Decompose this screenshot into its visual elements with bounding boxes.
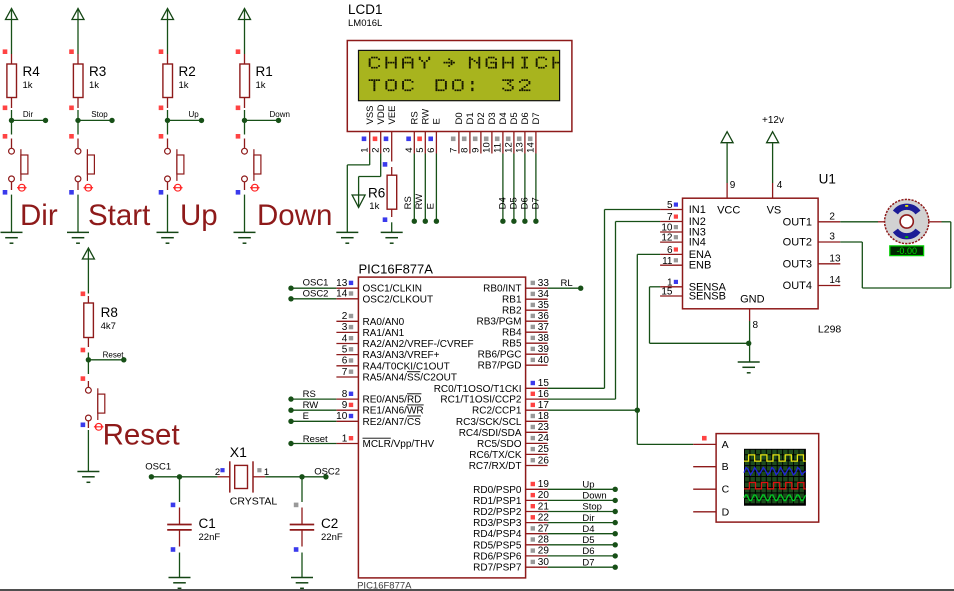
svg-text:14: 14 — [336, 289, 348, 300]
svg-text:Dir: Dir — [23, 110, 34, 119]
svg-text:40: 40 — [538, 355, 550, 366]
svg-text:9: 9 — [730, 180, 736, 191]
svg-text:RW: RW — [303, 400, 319, 411]
svg-text:E: E — [425, 203, 436, 209]
svg-text:34: 34 — [538, 289, 550, 300]
svg-text:8: 8 — [460, 148, 471, 153]
svg-text:RD4/PSP4: RD4/PSP4 — [473, 529, 522, 540]
svg-text:VS: VS — [767, 205, 782, 217]
svg-text:C: C — [722, 484, 730, 496]
svg-text:A: A — [722, 439, 729, 451]
svg-text:D4: D4 — [498, 112, 509, 124]
svg-text:D0: D0 — [454, 112, 465, 124]
svg-text:RB3/PGM: RB3/PGM — [476, 317, 521, 328]
svg-text:RE2/AN7/CS: RE2/AN7/CS — [363, 417, 422, 428]
svg-text:15: 15 — [661, 287, 673, 298]
svg-text:RC3/SCK/SCL: RC3/SCK/SCL — [456, 417, 522, 428]
svg-text:RD3/PSP3: RD3/PSP3 — [473, 518, 522, 529]
svg-text:7: 7 — [342, 367, 348, 378]
svg-text:RB0/INT: RB0/INT — [483, 284, 521, 295]
svg-text:VCC: VCC — [717, 205, 740, 217]
svg-text:RB1: RB1 — [502, 295, 522, 306]
svg-text:13: 13 — [336, 278, 348, 289]
svg-text:D5: D5 — [582, 535, 594, 546]
svg-text:C1: C1 — [199, 516, 216, 531]
svg-text:VEE: VEE — [387, 105, 398, 124]
svg-text:3: 3 — [382, 148, 393, 153]
svg-text:22: 22 — [538, 512, 550, 523]
svg-text:RD2/PSP2: RD2/PSP2 — [473, 507, 522, 518]
svg-text:4: 4 — [342, 333, 348, 344]
svg-text:22nF: 22nF — [321, 532, 343, 543]
svg-text:9: 9 — [471, 148, 482, 153]
svg-text:Reset: Reset — [103, 350, 125, 359]
svg-text:D6: D6 — [520, 112, 531, 124]
svg-text:D4: D4 — [498, 197, 509, 209]
svg-text:Reset: Reset — [103, 419, 180, 452]
svg-text:8: 8 — [753, 320, 759, 331]
svg-text:2: 2 — [371, 148, 382, 153]
svg-text:39: 39 — [538, 344, 550, 355]
svg-text:GND: GND — [740, 294, 765, 306]
svg-text:+12v: +12v — [762, 115, 784, 126]
svg-text:Down: Down — [270, 110, 290, 119]
svg-text:RA3/AN3/VREF+: RA3/AN3/VREF+ — [363, 350, 440, 361]
svg-text:OUT2: OUT2 — [783, 237, 812, 249]
svg-text:RW: RW — [421, 109, 432, 125]
svg-text:RB4: RB4 — [502, 328, 522, 339]
svg-text:OSC2: OSC2 — [303, 288, 329, 299]
svg-text:Dir: Dir — [20, 199, 58, 232]
svg-text:RS: RS — [403, 196, 414, 209]
svg-text:Reset: Reset — [303, 434, 328, 445]
svg-text:Start: Start — [88, 199, 150, 232]
svg-text:E: E — [432, 118, 443, 124]
svg-text:RA5/AN4/SS/C2OUT: RA5/AN4/SS/C2OUT — [363, 373, 457, 384]
svg-text:RA0/AN0: RA0/AN0 — [363, 317, 405, 328]
svg-text:26: 26 — [538, 455, 550, 466]
svg-text:17: 17 — [538, 400, 550, 411]
svg-text:RD5/PSP5: RD5/PSP5 — [473, 540, 522, 551]
svg-text:22nF: 22nF — [199, 532, 221, 543]
svg-text:RW: RW — [414, 194, 425, 210]
svg-text:RC4/SDI/SDA: RC4/SDI/SDA — [459, 428, 522, 439]
svg-text:RE0/AN5/RD: RE0/AN5/RD — [363, 395, 422, 406]
svg-text:6: 6 — [342, 356, 348, 367]
svg-text:20: 20 — [538, 490, 550, 501]
svg-text:D3: D3 — [487, 112, 498, 124]
svg-text:CRYSTAL: CRYSTAL — [230, 496, 278, 508]
svg-text:30: 30 — [538, 557, 550, 568]
svg-text:11: 11 — [662, 256, 673, 267]
svg-text:OUT1: OUT1 — [783, 216, 812, 228]
svg-text:R1: R1 — [256, 64, 273, 79]
svg-text:RB7/PGD: RB7/PGD — [478, 361, 522, 372]
svg-text:MCLR/Vpp/THV: MCLR/Vpp/THV — [363, 439, 435, 450]
svg-text:7: 7 — [449, 148, 460, 153]
svg-text:RC2/CCP1: RC2/CCP1 — [472, 406, 522, 417]
svg-text:6: 6 — [667, 245, 673, 256]
svg-text:OSC1/CLKIN: OSC1/CLKIN — [363, 284, 422, 295]
svg-text:3: 3 — [342, 322, 348, 333]
svg-text:5: 5 — [667, 200, 673, 211]
svg-text:X1: X1 — [230, 444, 247, 460]
svg-text:2: 2 — [829, 211, 835, 222]
svg-text:Up: Up — [189, 110, 200, 119]
svg-text:18: 18 — [538, 411, 550, 422]
svg-text:LCD1: LCD1 — [348, 2, 383, 17]
svg-text:1: 1 — [360, 148, 371, 153]
svg-text:RD6/PSP6: RD6/PSP6 — [473, 551, 522, 562]
svg-text:IN1: IN1 — [689, 204, 706, 216]
svg-text:RE1/AN6/WR: RE1/AN6/WR — [363, 406, 424, 417]
svg-text:10: 10 — [336, 411, 348, 422]
svg-text:D5: D5 — [509, 197, 520, 209]
svg-text:RA1/AN1: RA1/AN1 — [363, 328, 405, 339]
svg-text:8: 8 — [342, 389, 348, 400]
svg-text:L298: L298 — [818, 323, 842, 335]
svg-text:Up: Up — [180, 199, 218, 232]
svg-text:35: 35 — [538, 300, 550, 311]
svg-text:Stop: Stop — [91, 110, 108, 119]
svg-text:1k: 1k — [89, 80, 99, 91]
svg-text:OSC2: OSC2 — [314, 467, 340, 478]
svg-text:OUT4: OUT4 — [783, 280, 812, 292]
svg-text:PIC16F877A: PIC16F877A — [359, 262, 434, 277]
svg-text:RS: RS — [410, 111, 421, 124]
svg-text:U1: U1 — [819, 172, 836, 187]
svg-text:LM016L: LM016L — [348, 18, 382, 29]
svg-text:RC7/RX/DT: RC7/RX/DT — [469, 461, 522, 472]
svg-text:RB6/PGC: RB6/PGC — [478, 350, 522, 361]
svg-text:RA2/AN2/VREF-/CVREF: RA2/AN2/VREF-/CVREF — [363, 339, 474, 350]
svg-text:E: E — [303, 411, 309, 422]
svg-text:D1: D1 — [465, 112, 476, 124]
svg-text:R2: R2 — [179, 64, 196, 79]
svg-text:1k: 1k — [23, 80, 33, 91]
svg-text:IN4: IN4 — [689, 237, 706, 249]
svg-text:R4: R4 — [23, 64, 41, 79]
svg-text:-0.00: -0.00 — [896, 246, 917, 256]
svg-text:D4: D4 — [582, 524, 594, 535]
svg-text:12: 12 — [504, 142, 515, 153]
svg-text:4: 4 — [777, 180, 783, 191]
svg-text:Down: Down — [582, 491, 606, 502]
svg-text:OUT3: OUT3 — [783, 258, 812, 270]
svg-text:11: 11 — [493, 143, 504, 153]
svg-text:14: 14 — [829, 275, 841, 286]
svg-text:RD0/PSP0: RD0/PSP0 — [473, 485, 522, 496]
svg-text:RC5/SDO: RC5/SDO — [477, 439, 522, 450]
svg-text:OSC2/CLKOUT: OSC2/CLKOUT — [363, 294, 434, 305]
svg-text:10: 10 — [482, 142, 493, 153]
svg-text:5: 5 — [342, 344, 348, 355]
svg-text:3: 3 — [829, 232, 835, 243]
svg-text:RC6/TX/CK: RC6/TX/CK — [469, 450, 522, 461]
svg-text:2: 2 — [342, 311, 348, 322]
svg-text:D7: D7 — [531, 197, 542, 209]
svg-text:RC0/T1OSO/T1CKI: RC0/T1OSO/T1CKI — [434, 384, 522, 395]
svg-text:21: 21 — [538, 501, 550, 512]
svg-text:36: 36 — [538, 311, 550, 322]
svg-text:1k: 1k — [179, 80, 189, 91]
svg-text:VDD: VDD — [376, 104, 387, 124]
svg-text:7: 7 — [667, 212, 673, 223]
svg-text:ENB: ENB — [689, 260, 712, 272]
svg-text:1k: 1k — [369, 201, 379, 212]
svg-text:R3: R3 — [89, 64, 106, 79]
svg-text:VSS: VSS — [365, 105, 376, 124]
svg-text:16: 16 — [538, 389, 550, 400]
svg-text:15: 15 — [538, 378, 550, 389]
svg-text:SENSB: SENSB — [689, 291, 726, 303]
svg-text:RS: RS — [303, 389, 316, 400]
svg-text:13: 13 — [515, 142, 526, 153]
svg-text:5: 5 — [415, 148, 426, 153]
svg-text:D: D — [722, 506, 730, 518]
svg-text:Stop: Stop — [582, 502, 602, 513]
svg-text:RB2: RB2 — [502, 306, 522, 317]
svg-text:28: 28 — [538, 535, 550, 546]
svg-text:Up: Up — [582, 480, 594, 491]
svg-text:D5: D5 — [509, 112, 520, 124]
svg-text:24: 24 — [538, 433, 550, 444]
svg-text:1k: 1k — [256, 80, 266, 91]
svg-text:6: 6 — [426, 148, 437, 153]
svg-text:C2: C2 — [321, 516, 338, 531]
svg-text:37: 37 — [538, 322, 550, 333]
svg-text:Dir: Dir — [582, 513, 594, 524]
svg-text:R6: R6 — [368, 185, 385, 200]
svg-text:Down: Down — [257, 199, 332, 232]
svg-text:33: 33 — [538, 278, 550, 289]
svg-text:RD1/PSP1: RD1/PSP1 — [473, 496, 522, 507]
svg-text:D6: D6 — [582, 546, 594, 557]
svg-text:29: 29 — [538, 546, 550, 557]
svg-text:D6: D6 — [520, 197, 531, 209]
svg-text:14: 14 — [526, 142, 537, 153]
svg-text:RB5: RB5 — [502, 339, 522, 350]
svg-text:B: B — [722, 461, 729, 473]
svg-text:OSC1: OSC1 — [303, 278, 329, 289]
svg-text:RD7/PSP7: RD7/PSP7 — [473, 563, 522, 574]
svg-text:38: 38 — [538, 333, 550, 344]
svg-text:1: 1 — [342, 433, 348, 444]
svg-text:RA4/T0CKI/C1OUT: RA4/T0CKI/C1OUT — [363, 361, 450, 372]
svg-text:D7: D7 — [531, 112, 542, 124]
svg-text:4k7: 4k7 — [101, 321, 116, 332]
svg-text:12: 12 — [661, 233, 673, 244]
svg-text:19: 19 — [538, 479, 550, 490]
svg-text:9: 9 — [342, 400, 348, 411]
svg-text:R8: R8 — [101, 305, 118, 320]
svg-text:4: 4 — [404, 148, 415, 153]
svg-text:23: 23 — [538, 422, 550, 433]
svg-text:13: 13 — [829, 253, 841, 264]
svg-text:RL: RL — [561, 278, 573, 289]
svg-text:D7: D7 — [582, 557, 594, 568]
svg-text:2: 2 — [215, 467, 220, 478]
svg-text:25: 25 — [538, 444, 550, 455]
svg-text:27: 27 — [538, 524, 550, 535]
svg-text:RC1/T1OSI/CCP2: RC1/T1OSI/CCP2 — [440, 395, 522, 406]
svg-text:D2: D2 — [476, 112, 487, 124]
svg-text:OSC1: OSC1 — [145, 461, 171, 472]
